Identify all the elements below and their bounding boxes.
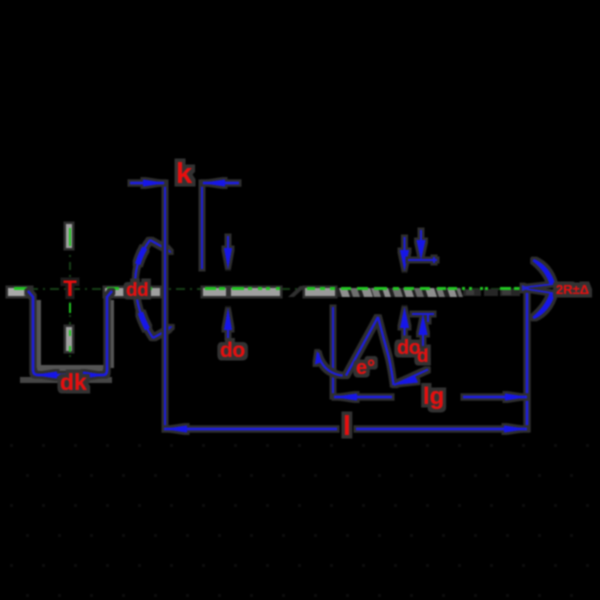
label lg (423, 383, 444, 410)
svg-text:e°: e° (356, 357, 375, 379)
V tool right branch (378, 317, 394, 385)
svg-text:d: d (417, 346, 429, 367)
label k (176, 158, 193, 190)
axis bright green dashes (14, 287, 521, 290)
axis hatched gray band (288, 286, 463, 297)
lens bottom bevel leader (153, 329, 169, 338)
dimension d tick bottom (412, 313, 434, 315)
dimension l line right (356, 428, 527, 430)
label dk (60, 369, 87, 395)
label dd (126, 280, 148, 301)
axis faint gray lumps 462-520 (463, 289, 520, 296)
dark slash mark near x=295 (288, 286, 306, 297)
radius 2R crescent bottom (533, 293, 556, 320)
faint background dot lattice (0, 435, 600, 600)
extension line x=165 (164, 182, 166, 430)
label do at x=404 and label d (397, 337, 429, 367)
label do at x=228 (220, 339, 245, 362)
svg-text:k: k (176, 158, 193, 190)
radius lines from vertex (523, 284, 554, 288)
svg-text:T: T (63, 276, 77, 301)
arrow left on dk line (34, 372, 57, 379)
V tool left branch (346, 317, 428, 385)
V bottom leader with arrow (394, 370, 428, 386)
svg-text:dk: dk (60, 369, 87, 395)
dimension k line right (203, 182, 239, 184)
dimension lg line left (334, 394, 527, 401)
small arrow at axis end (522, 285, 529, 291)
svg-text:dd: dd (126, 280, 148, 301)
vertical centerline gray long dashes (66, 224, 72, 351)
dimension l line left (164, 426, 527, 433)
lens arc (dd) thin (135, 240, 172, 338)
vertical centerline bright green dashes (69, 228, 71, 352)
arrow right on dk line (83, 372, 106, 379)
dimension k line left (130, 180, 239, 187)
extension line x=202 (201, 182, 203, 269)
label e deg (356, 357, 375, 379)
svg-text:do: do (220, 339, 245, 362)
axis thick gray bars (8, 288, 335, 296)
svg-text:l: l (343, 410, 351, 441)
label T (63, 276, 77, 301)
dimension do at x=228 lower arrow (227, 322, 229, 338)
svg-text:lg: lg (423, 383, 444, 410)
extension line x=333 (332, 307, 334, 397)
dimension do at x=404 lower arrow (404, 320, 406, 337)
dimension do at x=228 upper arrow (224, 236, 232, 338)
vertical centerline x=70 (69, 222, 71, 360)
lens top bevel leader (150, 240, 168, 250)
dimension do at x=404 upper arrow (400, 237, 409, 337)
dimension d upper arrow (420, 230, 422, 242)
dimension d at x=421 tick top (408, 230, 437, 346)
label l (343, 410, 351, 441)
label 2R (556, 282, 589, 297)
lens arc thick arrow segments (135, 240, 153, 338)
extension line x=527 (526, 288, 528, 430)
angle arc e (315, 351, 346, 376)
svg-text:2R±Δ: 2R±Δ (556, 282, 589, 297)
dimension lg line right (463, 396, 527, 398)
axis centerline dim green dashes (8, 288, 523, 290)
radius 2R crescent top (522, 259, 556, 319)
dimension d lower arrow (422, 334, 424, 346)
cup dk blue U dimension (28, 291, 112, 379)
cup dk gray echo lines (20, 300, 114, 383)
